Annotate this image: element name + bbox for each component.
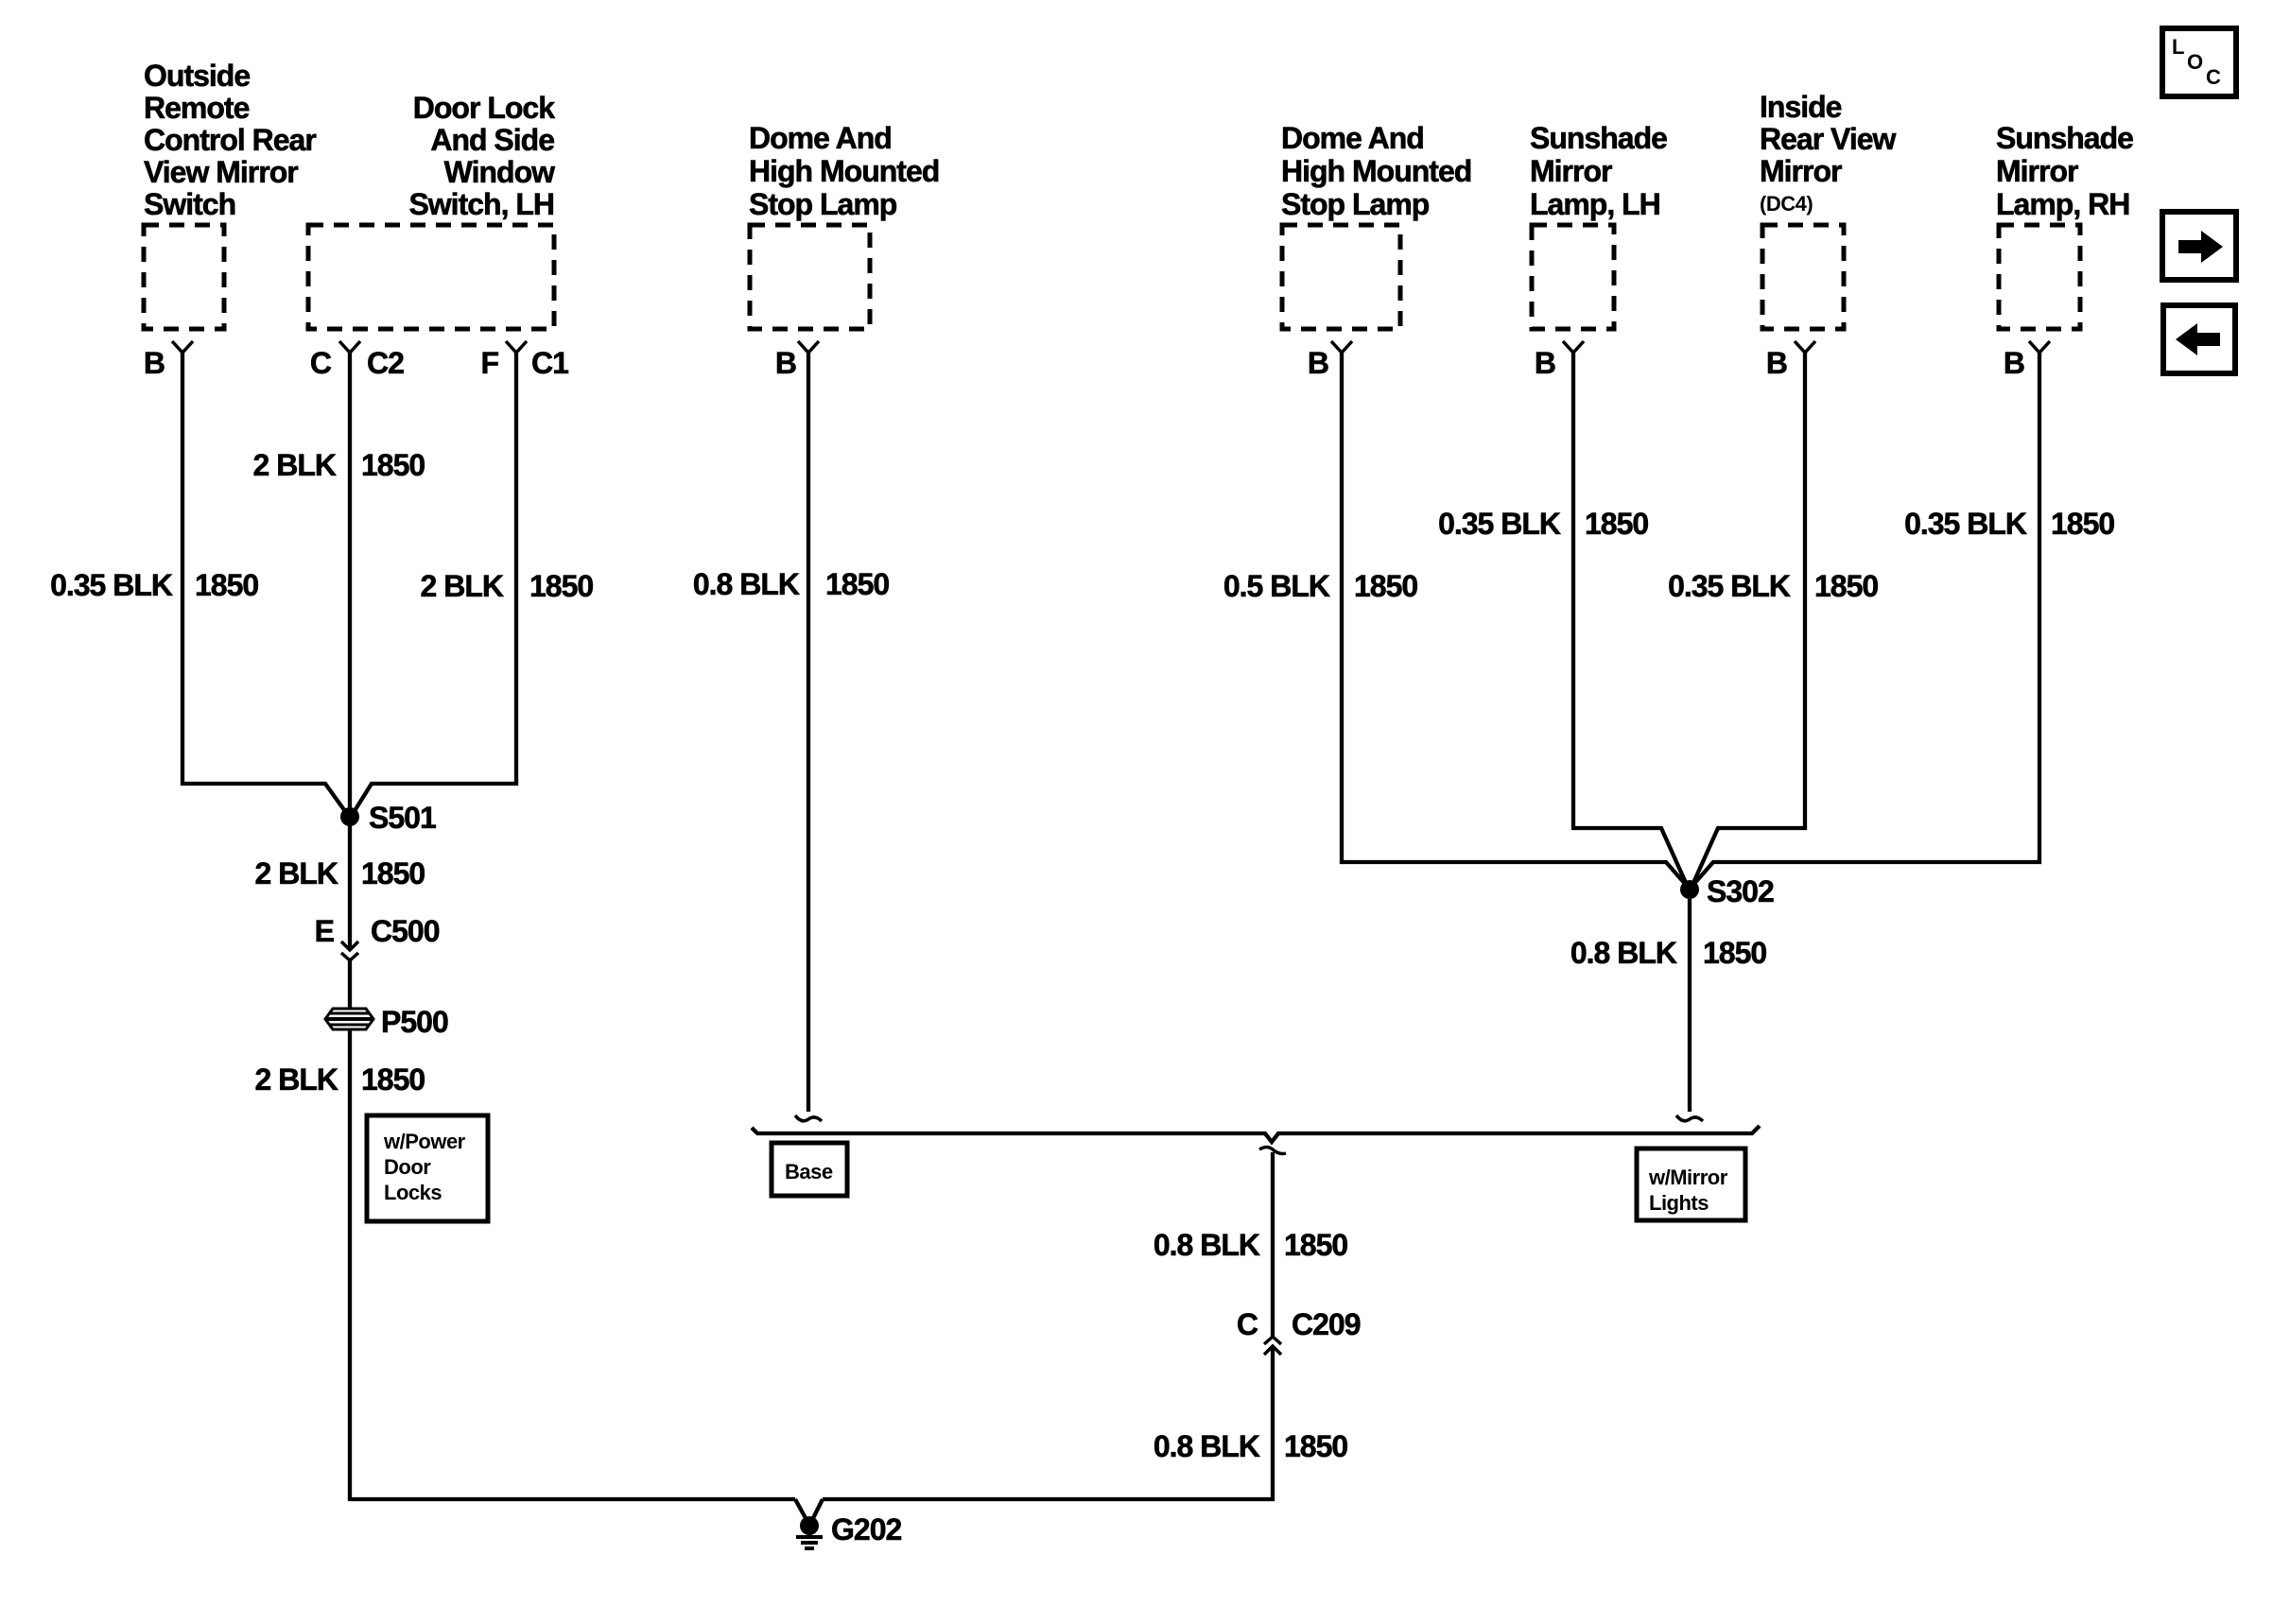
svg-text:0.8 BLK: 0.8 BLK bbox=[1154, 1429, 1260, 1463]
svg-text:S302: S302 bbox=[1707, 874, 1774, 908]
wire: inside mirror pin B down to S302 bbox=[1693, 353, 1805, 883]
wire label 0.8 BLK 1850 (below C209) bbox=[1154, 1429, 1348, 1463]
svg-text:w/Mirror: w/Mirror bbox=[1648, 1166, 1728, 1189]
svg-text:1850: 1850 bbox=[1703, 936, 1766, 970]
splice S501 bbox=[340, 807, 359, 826]
svg-text:Dome And: Dome And bbox=[1281, 121, 1424, 155]
svg-text:High Mounted: High Mounted bbox=[749, 154, 939, 188]
label: Inside Rear View Mirror (DC4) bbox=[1760, 90, 1897, 188]
pin B of inside rear view mirror bbox=[1795, 341, 1815, 353]
pin B of dome lamp (left) bbox=[798, 341, 819, 353]
svg-text:0.8 BLK: 0.8 BLK bbox=[1570, 936, 1677, 970]
wire: dome lamp (left) pin B down to splice bus bbox=[807, 353, 810, 1112]
svg-text:G202: G202 bbox=[831, 1512, 901, 1546]
label: Sunshade Mirror Lamp, LH bbox=[1530, 121, 1667, 221]
wire: door lock pin C1 down and left to S501 bbox=[353, 353, 516, 814]
wire: door lock pin C2 down through S501 to C500 bbox=[348, 353, 352, 950]
svg-text:1850: 1850 bbox=[361, 448, 425, 482]
svg-text:Base: Base bbox=[785, 1160, 833, 1183]
svg-text:Window: Window bbox=[444, 155, 555, 189]
svg-text:0.35 BLK: 0.35 BLK bbox=[1904, 507, 2027, 541]
svg-text:Mirror: Mirror bbox=[1530, 154, 1612, 188]
label: Sunshade Mirror Lamp, RH bbox=[1996, 121, 2133, 221]
svg-text:1850: 1850 bbox=[1284, 1228, 1347, 1262]
svg-text:0.8 BLK: 0.8 BLK bbox=[693, 567, 800, 601]
label: Outside Remote Control Rear View Mirror Switch bbox=[144, 59, 316, 221]
pin F / C1 of door lock switch bbox=[506, 341, 527, 353]
svg-text:Locks: Locks bbox=[384, 1181, 442, 1204]
pin C / C2 of door lock switch bbox=[339, 341, 360, 353]
svg-text:F: F bbox=[480, 346, 498, 380]
svg-text:And Side: And Side bbox=[430, 123, 554, 157]
svg-text:P500: P500 bbox=[381, 1005, 448, 1039]
pin B of sunshade lamp RH bbox=[2029, 341, 2050, 353]
svg-text:0.35 BLK: 0.35 BLK bbox=[50, 568, 173, 602]
wire: mirror switch pin B down and right to S501 bbox=[182, 353, 347, 814]
svg-text:B: B bbox=[1766, 346, 1787, 380]
component box: Sunshade Mirror Lamp, LH bbox=[1532, 225, 1614, 329]
wire label 0.8 BLK 1850 (above C209) bbox=[1154, 1228, 1348, 1262]
svg-text:View Mirror: View Mirror bbox=[144, 155, 298, 189]
svg-text:Inside: Inside bbox=[1760, 90, 1842, 124]
svg-text:1850: 1850 bbox=[1354, 569, 1417, 603]
svg-text:1850: 1850 bbox=[1814, 569, 1878, 603]
svg-text:2 BLK: 2 BLK bbox=[255, 1063, 338, 1097]
wire: sunshade RH pin B down to S302 bbox=[1692, 353, 2039, 886]
wire label 2 BLK 1850 (C1 wire) bbox=[421, 569, 594, 603]
svg-text:Dome And: Dome And bbox=[749, 121, 892, 155]
component box: Outside Remote Control Rear View Mirror Switch bbox=[144, 225, 224, 329]
wire: P500 down to ground run bbox=[350, 1029, 795, 1499]
component box: Sunshade Mirror Lamp, RH bbox=[1999, 225, 2080, 329]
svg-text:Rear View: Rear View bbox=[1760, 122, 1897, 156]
wire label 0.35 BLK 1850 (sunshade LH wire) bbox=[1438, 507, 1648, 541]
svg-text:E: E bbox=[315, 914, 335, 948]
svg-text:0.35 BLK: 0.35 BLK bbox=[1668, 569, 1791, 603]
wire label 0.5 BLK 1850 (dome right wire) bbox=[1223, 569, 1418, 603]
svg-text:C500: C500 bbox=[371, 914, 440, 948]
wire curl below bus (C209 drop) bbox=[1259, 1148, 1286, 1154]
splice bus line bbox=[752, 1126, 1760, 1142]
svg-text:w/Power: w/Power bbox=[383, 1130, 466, 1153]
svg-text:Remote: Remote bbox=[144, 91, 250, 125]
svg-text:C2: C2 bbox=[367, 346, 404, 380]
svg-text:1850: 1850 bbox=[361, 856, 425, 890]
wire label 2 BLK 1850 (below P500) bbox=[255, 1063, 425, 1097]
component box: Inside Rear View Mirror bbox=[1762, 225, 1844, 329]
svg-text:Mirror: Mirror bbox=[1760, 154, 1842, 188]
svg-text:1850: 1850 bbox=[195, 568, 258, 602]
grommet P500 bbox=[325, 1005, 448, 1039]
option box: w/Mirror Lights bbox=[1637, 1149, 1745, 1220]
svg-text:C209: C209 bbox=[1292, 1307, 1361, 1341]
wire end curl above bus (dome left) bbox=[795, 1115, 822, 1121]
svg-text:High Mounted: High Mounted bbox=[1281, 154, 1471, 188]
svg-text:C: C bbox=[2206, 65, 2221, 89]
connector C209 (pin C) bbox=[1237, 1307, 1361, 1355]
wire end curl above bus (S302 wire) bbox=[1676, 1115, 1703, 1121]
svg-text:1850: 1850 bbox=[361, 1063, 425, 1097]
wire label 0.8 BLK 1850 (dome left wire) bbox=[693, 567, 890, 601]
splice S302 bbox=[1680, 880, 1699, 899]
svg-text:L: L bbox=[2172, 35, 2184, 59]
svg-text:C1: C1 bbox=[531, 346, 568, 380]
ground G202 bbox=[795, 1499, 901, 1548]
pin B of mirror switch bbox=[172, 341, 193, 353]
svg-text:B: B bbox=[1535, 346, 1555, 380]
label: Dome And High Mounted Stop Lamp (left) bbox=[749, 121, 939, 221]
svg-text:(DC4): (DC4) bbox=[1760, 192, 1813, 216]
svg-text:1850: 1850 bbox=[529, 569, 593, 603]
svg-text:2 BLK: 2 BLK bbox=[255, 856, 338, 890]
svg-text:B: B bbox=[775, 346, 796, 380]
svg-text:Lights: Lights bbox=[1649, 1191, 1709, 1215]
component box: Dome And High Mounted Stop Lamp (left) bbox=[750, 225, 870, 329]
svg-text:Control Rear: Control Rear bbox=[144, 123, 316, 157]
wire: sunshade LH pin B down to S302 bbox=[1573, 353, 1686, 883]
svg-text:S501: S501 bbox=[369, 801, 436, 835]
svg-text:0.5 BLK: 0.5 BLK bbox=[1223, 569, 1330, 603]
svg-text:C: C bbox=[310, 346, 332, 380]
option box: w/Power Door Locks bbox=[367, 1115, 488, 1221]
svg-text:B: B bbox=[144, 346, 165, 380]
svg-text:Outside: Outside bbox=[144, 59, 250, 93]
pin B of dome lamp (right) bbox=[1331, 341, 1352, 353]
svg-text:Sunshade: Sunshade bbox=[1996, 121, 2133, 155]
svg-text:B: B bbox=[1308, 346, 1328, 380]
svg-text:Switch, LH: Switch, LH bbox=[408, 187, 554, 221]
wire: C500 to P500 bbox=[348, 960, 352, 1010]
component box: Door Lock And Side Window Switch, LH bbox=[308, 225, 554, 329]
svg-text:1850: 1850 bbox=[825, 567, 889, 601]
component box: Dome And High Mounted Stop Lamp (right) bbox=[1282, 225, 1400, 329]
svg-text:2 BLK: 2 BLK bbox=[421, 569, 504, 603]
wire label 0.35 BLK 1850 (sunshade RH wire) bbox=[1904, 507, 2114, 541]
svg-text:B: B bbox=[2004, 346, 2024, 380]
wire: S302 down to splice bus bbox=[1688, 899, 1692, 1112]
wire label 0.35 BLK 1850 (inside mirror wire) bbox=[1668, 569, 1878, 603]
connector C500 (pin E) bbox=[315, 914, 440, 960]
wire label 2 BLK 1850 (C2 wire) bbox=[253, 448, 425, 482]
svg-text:1850: 1850 bbox=[2051, 507, 2114, 541]
left-arrow legend box bbox=[2163, 305, 2235, 373]
wire label 0.8 BLK 1850 (below S302) bbox=[1570, 936, 1767, 970]
svg-text:2 BLK: 2 BLK bbox=[253, 448, 337, 482]
svg-text:Switch: Switch bbox=[144, 187, 235, 221]
wire: dome lamp (right) pin B down to S302 bbox=[1342, 353, 1687, 886]
option box: Base bbox=[772, 1143, 847, 1196]
LOC legend box bbox=[2162, 28, 2236, 96]
svg-text:Door: Door bbox=[384, 1155, 431, 1179]
svg-text:O: O bbox=[2187, 50, 2203, 74]
svg-text:Stop Lamp: Stop Lamp bbox=[1281, 187, 1430, 221]
svg-text:Stop Lamp: Stop Lamp bbox=[749, 187, 897, 221]
svg-text:0.8 BLK: 0.8 BLK bbox=[1154, 1228, 1260, 1262]
svg-text:Lamp, LH: Lamp, LH bbox=[1530, 187, 1660, 221]
right-arrow legend box bbox=[2162, 212, 2236, 280]
wire: C209 down to ground run bbox=[823, 1346, 1273, 1499]
svg-text:0.35 BLK: 0.35 BLK bbox=[1438, 507, 1561, 541]
svg-text:Door Lock: Door Lock bbox=[413, 91, 555, 125]
wire: bus down to C209 bbox=[1271, 1152, 1275, 1336]
pin B of sunshade lamp LH bbox=[1563, 341, 1584, 353]
svg-text:1850: 1850 bbox=[1585, 507, 1648, 541]
label: Door Lock And Side Window Switch, LH bbox=[408, 91, 555, 221]
svg-text:Mirror: Mirror bbox=[1996, 154, 2078, 188]
wire label 2 BLK 1850 (below S501) bbox=[255, 856, 425, 890]
wire label 0.35 BLK 1850 (B wire) bbox=[50, 568, 258, 602]
svg-text:C: C bbox=[1237, 1307, 1258, 1341]
svg-text:Lamp, RH: Lamp, RH bbox=[1996, 187, 2129, 221]
svg-text:1850: 1850 bbox=[1284, 1429, 1347, 1463]
label: Dome And High Mounted Stop Lamp (right) bbox=[1281, 121, 1471, 221]
svg-text:Sunshade: Sunshade bbox=[1530, 121, 1667, 155]
